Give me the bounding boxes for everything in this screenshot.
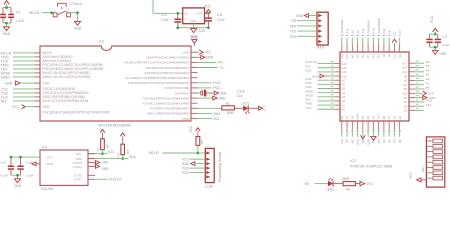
svg-text:TX: TX bbox=[219, 66, 224, 70]
svg-text:0.1uF: 0.1uF bbox=[442, 43, 450, 47]
IC1 right pin stubs bbox=[191, 52, 198, 118]
svg-text:330R: 330R bbox=[226, 111, 234, 115]
svg-text:A2: A2 bbox=[342, 99, 346, 103]
wire SYSCLK from IC4 bbox=[95, 177, 122, 181]
PLCC pin names bottom inside bbox=[340, 113, 402, 119]
wire R2 to VCC flag bbox=[355, 183, 359, 185]
junction at C11 top bbox=[207, 12, 210, 15]
svg-text:D7: D7 bbox=[404, 100, 408, 104]
switch S1 contact 2 bbox=[67, 9, 71, 17]
wire SDA stub bbox=[198, 112, 222, 116]
junction below caps bbox=[16, 174, 19, 177]
wire regulator ADJ to GND rail bbox=[178, 24, 209, 28]
svg-text:TDO/SDA1/RP9/CN21/PMA8/RB9: TDO/SDA1/RP9/CN21/PMA8/RB9 bbox=[142, 96, 190, 100]
svg-text:D5: D5 bbox=[361, 139, 365, 143]
wire TX bbox=[198, 66, 225, 70]
capacitor C14 bbox=[8, 157, 14, 175]
svg-text:A4: A4 bbox=[342, 91, 346, 95]
wire SCL stub bbox=[198, 117, 221, 121]
PLCC top pins and nets bbox=[340, 18, 402, 52]
wire TCK to JTAG bbox=[290, 30, 317, 34]
LED LED2 bbox=[326, 178, 334, 191]
svg-text:A7: A7 bbox=[398, 30, 402, 34]
svg-text:4K7: 4K7 bbox=[126, 149, 130, 154]
wire R5 to MCLR bbox=[197, 145, 199, 153]
svg-text:A1: A1 bbox=[342, 103, 346, 107]
svg-text:A6: A6 bbox=[342, 83, 346, 87]
wire SDA (IC4 to label) bbox=[88, 155, 136, 159]
svg-text:VCC: VCC bbox=[366, 182, 373, 186]
wire LED1 to flag bbox=[248, 107, 258, 109]
svg-text:NC: NC bbox=[387, 29, 391, 33]
svg-text:GND: GND bbox=[3, 32, 11, 36]
svg-text:OUT1: OUT1 bbox=[74, 178, 82, 182]
svg-text:AN9/RP15/CN11/PMCS1/RB15: AN9/RP15/CN11/PMCS1/RB15 bbox=[146, 56, 190, 60]
svg-text:A15: A15 bbox=[342, 70, 347, 74]
svg-text:A7: A7 bbox=[342, 78, 346, 82]
svg-text:D4: D4 bbox=[345, 139, 349, 143]
svg-text:D1: D1 bbox=[382, 139, 386, 143]
supply VCC symbol (IC1 left VCC pin) bbox=[12, 105, 40, 109]
svg-text:PGC2/EMUC2/TMS/RP11/CN15/PMA10: PGC2/EMUC2/TMS/RP11/CN15/PMA10/RB11 bbox=[125, 76, 189, 80]
svg-text:A8: A8 bbox=[356, 30, 360, 34]
svg-text:LED1: LED1 bbox=[241, 102, 249, 106]
svg-text:SYSCLK: SYSCLK bbox=[108, 177, 122, 181]
svg-text:D2: D2 bbox=[350, 115, 354, 119]
svg-text:D1: D1 bbox=[345, 115, 349, 119]
svg-text:MCLR: MCLR bbox=[29, 11, 40, 15]
IC4 right pin stubs bbox=[88, 154, 95, 180]
label IC3 bbox=[350, 159, 355, 163]
supply VCC symbol (regulator out) bbox=[204, 4, 211, 13]
svg-text:3.3V: 3.3V bbox=[199, 29, 206, 33]
svg-text:VCC: VCC bbox=[430, 15, 434, 23]
svg-text:GND: GND bbox=[366, 139, 370, 145]
svg-text:VCC: VCC bbox=[356, 139, 360, 145]
svg-text:VSS: VSS bbox=[42, 81, 49, 85]
capacitor C16 (VCAP) bbox=[198, 90, 214, 97]
wire CLK to IC1 bbox=[1, 95, 40, 99]
svg-text:GND: GND bbox=[206, 56, 214, 60]
wire PGC bbox=[198, 86, 222, 90]
svg-text:A14: A14 bbox=[426, 103, 432, 107]
label 3.3V bbox=[199, 29, 206, 33]
wire PGD bbox=[198, 81, 222, 85]
PLCC pin names right inside bbox=[402, 61, 407, 112]
svg-text:ADJ: ADJ bbox=[191, 19, 197, 23]
svg-text:SOSCO/T1CK/CN0/PMA1/RA4: SOSCO/T1CK/CN0/PMA1/RA4 bbox=[42, 99, 88, 103]
capacitor C2 bbox=[8, 8, 14, 23]
switch S1 lever bbox=[57, 11, 67, 15]
net flag VCC (LED2) bbox=[360, 181, 374, 185]
svg-text:GND/AM0: GND/AM0 bbox=[366, 20, 370, 34]
svg-text:VCC: VCC bbox=[205, 51, 212, 55]
svg-text:RX: RX bbox=[218, 61, 223, 65]
svg-text:SCL: SCL bbox=[213, 117, 220, 121]
svg-text:SCL: SCL bbox=[108, 150, 115, 154]
wire MCLR to header bbox=[163, 152, 198, 154]
svg-text:C12: C12 bbox=[442, 34, 448, 38]
junction below C12/C13 bbox=[434, 46, 437, 49]
svg-text:MISO: MISO bbox=[1, 75, 11, 79]
svg-text:D6: D6 bbox=[382, 115, 386, 119]
svg-text:CE: CE bbox=[393, 115, 397, 119]
rtc IC4 body bbox=[40, 150, 88, 185]
supply VCC symbol (PLCC right) bbox=[409, 91, 435, 96]
svg-text:IN: IN bbox=[185, 11, 188, 15]
svg-text:AN10/CVREF/RTCC/RP14/CN12/PMWR: AN10/CVREF/RTCC/RP14/CN12/PMWR/RB14 bbox=[124, 61, 189, 65]
wire MISO to PLCC bbox=[305, 89, 340, 93]
svg-text:GND: GND bbox=[296, 14, 304, 18]
svg-text:GND: GND bbox=[5, 82, 13, 86]
wire TDI to JTAG bbox=[291, 19, 317, 23]
wire SYSCLK to PLCC bbox=[305, 60, 340, 64]
svg-text:C11: C11 bbox=[217, 13, 223, 17]
wire R3 to SCL net bbox=[102, 150, 104, 154]
wire PGC to SV1 bbox=[182, 171, 205, 175]
wire CS2 to IC1 bbox=[1, 91, 40, 95]
svg-text:WE: WE bbox=[350, 54, 354, 59]
microcontroller IC1 body bbox=[40, 46, 191, 121]
svg-text:VCC: VCC bbox=[204, 4, 211, 8]
wire A0 from PLCC bbox=[409, 86, 430, 90]
svg-text:A5: A5 bbox=[342, 87, 346, 91]
svg-text:ASCL1/RP6/CN24/PMD6/RB6: ASCL1/RP6/CN24/PMD6/RB6 bbox=[147, 112, 189, 116]
junction node below C1/C2 bbox=[5, 22, 8, 25]
svg-text:D4: D4 bbox=[366, 115, 370, 119]
svg-text:A3: A3 bbox=[342, 95, 346, 99]
svg-text:PGD2/EMUD2/TDI/RP10/CN16/PMA9/: PGD2/EMUD2/TDI/RP10/CN16/PMA9/RB10 bbox=[128, 81, 189, 85]
svg-text:PGD: PGD bbox=[182, 167, 190, 171]
net label INT (LED2) bbox=[305, 182, 310, 186]
svg-text:D0: D0 bbox=[340, 115, 344, 119]
ground symbol (PLCC left pin GND) bbox=[312, 74, 340, 79]
svg-text:INT0/RP7/CN23/PMD5/RB7: INT0/RP7/CN23/PMD5/RB7 bbox=[150, 107, 189, 111]
svg-text:4K7: 4K7 bbox=[106, 143, 110, 148]
wire SCL (IC4 to label) bbox=[88, 150, 114, 154]
resistor network DN1 elements bbox=[426, 139, 442, 180]
label C2 bbox=[16, 11, 20, 15]
ground symbol (IC4 GND pin) bbox=[32, 162, 40, 166]
wire TDO from PLCC bbox=[409, 99, 433, 103]
junction at S1 pin 2 bbox=[76, 11, 79, 14]
svg-text:JTAG: JTAG bbox=[316, 46, 325, 50]
label C12 bbox=[442, 34, 448, 38]
IC4 pin names inside bbox=[46, 152, 82, 182]
svg-text:A12: A12 bbox=[342, 74, 347, 78]
svg-text:TMS: TMS bbox=[289, 24, 296, 28]
svg-text:GND: GND bbox=[312, 74, 320, 78]
junction R5/MCLR bbox=[197, 152, 200, 155]
svg-text:A13: A13 bbox=[345, 28, 349, 34]
junction at S1 pin 1 bbox=[50, 11, 53, 14]
svg-text:S: S bbox=[263, 108, 265, 112]
svg-text:VCC: VCC bbox=[393, 31, 397, 37]
junction at C10 top bbox=[177, 12, 180, 15]
wire to R1 bbox=[198, 107, 222, 109]
svg-text:D0: D0 bbox=[398, 139, 402, 143]
ground symbol (IC1 top VSS) bbox=[191, 36, 199, 46]
resistor R4 bbox=[117, 144, 130, 156]
supply VCC symbol (R3 top) bbox=[100, 129, 105, 138]
wire MISO to IC1 bbox=[1, 75, 40, 79]
switch S1 contact 1 bbox=[53, 9, 57, 17]
connector JTAG pin arrows bbox=[318, 14, 322, 43]
net label MCLR (header) bbox=[149, 151, 160, 155]
svg-text:4K7: 4K7 bbox=[200, 139, 204, 144]
svg-text:C16: C16 bbox=[237, 94, 243, 98]
svg-text:A12: A12 bbox=[382, 28, 386, 34]
svg-text:CE: CE bbox=[403, 96, 407, 100]
svg-text:VCC: VCC bbox=[182, 158, 189, 162]
wire CLK to PLCC bbox=[305, 69, 340, 73]
LED LED1 bbox=[241, 102, 249, 114]
wire CS0 to PLCC bbox=[305, 85, 340, 89]
svg-text:NC: NC bbox=[351, 139, 355, 143]
svg-text:VCC: VCC bbox=[377, 114, 381, 120]
wire A6 from PLCC bbox=[409, 60, 430, 64]
switch S1 actuator bbox=[58, 3, 67, 9]
PLCC bottom pins and nets bbox=[340, 121, 402, 146]
label C15 bbox=[26, 160, 32, 164]
ground symbol (IC4 caps) bbox=[14, 179, 22, 188]
wire S1 pin 2 to GND bbox=[70, 13, 77, 22]
svg-text:AN11/RP13/CN13/PMRD/RB13: AN11/RP13/CN13/PMRD/RB13 bbox=[146, 66, 190, 70]
svg-text:DISVREG: DISVREG bbox=[175, 91, 190, 95]
capacitor C12 bbox=[426, 34, 432, 47]
wire R4 to SDA net bbox=[122, 155, 124, 159]
svg-text:0.1uF: 0.1uF bbox=[0, 173, 8, 177]
wire A5 from PLCC bbox=[409, 64, 430, 68]
capacitor C15 bbox=[17, 157, 23, 175]
svg-text:A18: A18 bbox=[356, 54, 360, 59]
svg-text:D6: D6 bbox=[404, 104, 408, 108]
svg-text:CLK: CLK bbox=[305, 69, 312, 73]
net flag after LED1 bbox=[258, 104, 266, 111]
svg-text:A14: A14 bbox=[371, 54, 375, 59]
wire MCLR to IC1 bbox=[1, 51, 40, 55]
wire CS1 to PLCC bbox=[305, 81, 340, 85]
label JTAG bbox=[316, 46, 325, 50]
svg-text:GND: GND bbox=[191, 36, 199, 40]
svg-text:VCC: VCC bbox=[345, 54, 349, 60]
svg-text:GND: GND bbox=[408, 172, 412, 180]
junction at GND rail left bbox=[177, 26, 180, 29]
pin label OUT bbox=[196, 11, 203, 15]
pin label ADJ bbox=[191, 19, 197, 23]
svg-text:A11: A11 bbox=[403, 83, 408, 87]
svg-text:PGC: PGC bbox=[182, 171, 190, 175]
ground symbol (PLCC bottom) bbox=[371, 137, 376, 141]
wire TDO to IC1 bbox=[1, 55, 40, 59]
label ICSP bbox=[205, 185, 212, 189]
svg-text:TCK: TCK bbox=[290, 30, 297, 34]
svg-text:R1: R1 bbox=[226, 102, 230, 106]
svg-text:D5: D5 bbox=[371, 115, 375, 119]
label 0.1uF (C12) bbox=[442, 43, 450, 47]
svg-text:VDD: VDD bbox=[42, 105, 50, 109]
wire C12/C13 bottom bbox=[430, 47, 438, 50]
resistor network DN1 body bbox=[426, 137, 444, 187]
svg-text:A8: A8 bbox=[382, 54, 386, 58]
svg-text:0.1uF: 0.1uF bbox=[26, 173, 34, 177]
svg-text:A10: A10 bbox=[372, 28, 376, 34]
connector JTAG body bbox=[317, 12, 328, 45]
supply VCC symbol (R4 top) bbox=[120, 133, 125, 144]
wire MCLR to SV1 pin1 bbox=[198, 152, 205, 154]
ground symbol (VCAP cap) bbox=[214, 91, 227, 95]
wire TCK to PLCC bbox=[305, 106, 340, 110]
svg-text:TDI: TDI bbox=[291, 19, 296, 23]
svg-text:D3: D3 bbox=[393, 139, 397, 143]
svg-text:PIC24FJ64GA002: PIC24FJ64GA002 bbox=[99, 122, 132, 127]
supply VCC symbol (PLCC bottom) bbox=[361, 135, 366, 138]
svg-text:IC3: IC3 bbox=[350, 159, 355, 163]
PLCC pin names left inside bbox=[342, 62, 347, 112]
label IC1 bbox=[99, 40, 104, 44]
svg-text:A11: A11 bbox=[393, 54, 397, 59]
svg-text:AT49T24L-PC44PLCC-SMA8: AT49T24L-PC44PLCC-SMA8 bbox=[350, 165, 392, 169]
IC1 pin names (left column) bbox=[42, 51, 109, 114]
svg-text:CTRL1: CTRL1 bbox=[72, 165, 82, 169]
label IC4 bbox=[42, 146, 47, 150]
connector SV1 pin arrows bbox=[206, 151, 210, 178]
svg-text:C14: C14 bbox=[0, 160, 6, 164]
resistor R1 bbox=[222, 102, 235, 115]
label C16 bbox=[237, 94, 243, 98]
ground symbol (switch) bbox=[74, 21, 82, 30]
svg-text:A0: A0 bbox=[426, 86, 430, 90]
wire A4 from PLCC bbox=[409, 68, 430, 72]
svg-text:D7: D7 bbox=[387, 115, 391, 119]
svg-text:A10: A10 bbox=[402, 92, 407, 96]
wire MOSI to PLCC bbox=[305, 93, 340, 97]
wire TMS to PLCC bbox=[305, 102, 340, 106]
svg-text:OE: OE bbox=[403, 87, 407, 91]
svg-text:A13: A13 bbox=[377, 54, 381, 59]
wire TMS to JTAG bbox=[289, 24, 317, 28]
svg-text:A9: A9 bbox=[351, 30, 355, 34]
svg-text:GND: GND bbox=[182, 162, 190, 166]
wire TDI to IC1 bbox=[1, 67, 40, 71]
ground symbol (regulator) bbox=[190, 29, 198, 39]
svg-text:INT: INT bbox=[1, 99, 8, 103]
svg-text:GND/AMR: GND/AMR bbox=[340, 20, 344, 34]
svg-text:MCLR: MCLR bbox=[149, 151, 160, 155]
capacitor C13 bbox=[435, 34, 441, 47]
wire A14 from PLCC bbox=[409, 103, 431, 107]
wire VIN from top edge bbox=[153, 0, 183, 13]
wire TMS to IC1 bbox=[1, 63, 40, 67]
wire C1/C2 to GND bbox=[3, 23, 11, 27]
svg-text:GND: GND bbox=[101, 167, 109, 171]
wire INT to IC1 bbox=[1, 99, 40, 103]
svg-text:1.5uF: 1.5uF bbox=[237, 90, 245, 94]
label 0.1uF (C11) bbox=[217, 18, 225, 22]
wire CS1 to IC1 bbox=[1, 87, 40, 91]
svg-text:A18: A18 bbox=[342, 62, 347, 66]
wire TCK to IC1 bbox=[1, 59, 40, 63]
voltage regulator IC2 body bbox=[183, 8, 205, 24]
wire A3 from PLCC bbox=[409, 73, 430, 77]
wire PGD to SV1 bbox=[182, 167, 205, 171]
wire OUT to VCC node bbox=[205, 12, 209, 14]
svg-text:VCC: VCC bbox=[46, 156, 53, 160]
svg-text:OE: OE bbox=[398, 54, 402, 58]
label 0.1uF bbox=[16, 19, 25, 23]
svg-text:DS1305: DS1305 bbox=[41, 187, 53, 191]
svg-text:DN1: DN1 bbox=[421, 166, 425, 172]
junction at GND rail right bbox=[207, 26, 210, 29]
svg-text:VDD: VDD bbox=[182, 117, 189, 121]
svg-text:GND: GND bbox=[101, 161, 109, 165]
svg-text:A19: A19 bbox=[340, 54, 344, 59]
ground symbol (CTRL0) bbox=[95, 161, 109, 165]
svg-text:0.1uF: 0.1uF bbox=[16, 19, 25, 23]
label C11 bbox=[217, 13, 223, 17]
svg-text:AN12/PMA11/RP12/CN14/RB12: AN12/PMA11/RP12/CN14/RB12 bbox=[145, 71, 190, 75]
wire TDI to PLCC bbox=[305, 98, 340, 102]
svg-text:D3: D3 bbox=[361, 115, 365, 119]
svg-text:330R: 330R bbox=[342, 177, 350, 181]
wire VCC to C1/C2 junction bbox=[3, 4, 11, 7]
supply VCC symbol (top-right) bbox=[430, 15, 438, 34]
svg-text:R2: R2 bbox=[346, 188, 350, 192]
wire MCLR to S1 pin 1 bbox=[42, 12, 54, 14]
label AT49F24L-PC44PLCC-SMA8 bbox=[350, 165, 392, 169]
label 1.5uF bbox=[237, 90, 245, 94]
svg-text:VCAP/VDDCORE: VCAP/VDDCORE bbox=[164, 86, 189, 90]
svg-text:OUT: OUT bbox=[196, 11, 203, 15]
label C14 bbox=[0, 160, 6, 164]
supply VCC symbol (IC1 VDD pin) bbox=[198, 50, 213, 55]
wire TDO to JTAG bbox=[289, 35, 317, 39]
svg-text:VSS: VSS bbox=[183, 51, 189, 55]
wire A2 from PLCC bbox=[409, 77, 430, 81]
svg-text:R3: R3 bbox=[96, 147, 100, 151]
junction above C14 bbox=[10, 156, 13, 159]
svg-text:GND: GND bbox=[218, 96, 226, 100]
svg-text:LED2: LED2 bbox=[326, 188, 334, 192]
svg-text:PGC: PGC bbox=[213, 86, 221, 90]
wire PLCC right pin 12 bbox=[409, 108, 424, 110]
ground symbol (SV1) bbox=[182, 162, 205, 166]
svg-text:VCC: VCC bbox=[12, 105, 20, 109]
svg-text:C2: C2 bbox=[16, 11, 20, 15]
junction R4/SDA bbox=[121, 157, 124, 160]
wire VCC rail to IC4 bbox=[11, 156, 40, 158]
label DT3xx-6 bbox=[69, 2, 82, 6]
svg-text:A9: A9 bbox=[404, 79, 408, 83]
wire INT to LED2 bbox=[315, 183, 328, 185]
svg-text:D7: D7 bbox=[377, 139, 381, 143]
PLCC44 socket IC3 body bbox=[340, 52, 409, 121]
svg-text:A14: A14 bbox=[402, 66, 407, 70]
svg-text:GND: GND bbox=[439, 52, 447, 56]
resistor R2 bbox=[342, 177, 356, 191]
label 0.1uF (C10) bbox=[161, 18, 169, 22]
ground symbol (top-left) bbox=[3, 27, 11, 36]
wire caps bottom rail bbox=[11, 175, 21, 178]
svg-text:A13: A13 bbox=[402, 70, 407, 74]
svg-text:VCC: VCC bbox=[189, 125, 193, 132]
connector SV1 programming header body bbox=[205, 148, 214, 182]
svg-text:A11: A11 bbox=[361, 28, 365, 33]
net label MCLR bbox=[29, 11, 40, 15]
svg-text:A17: A17 bbox=[402, 61, 407, 65]
junction above C12/C13 bbox=[430, 33, 438, 36]
svg-text:GND: GND bbox=[220, 91, 228, 95]
